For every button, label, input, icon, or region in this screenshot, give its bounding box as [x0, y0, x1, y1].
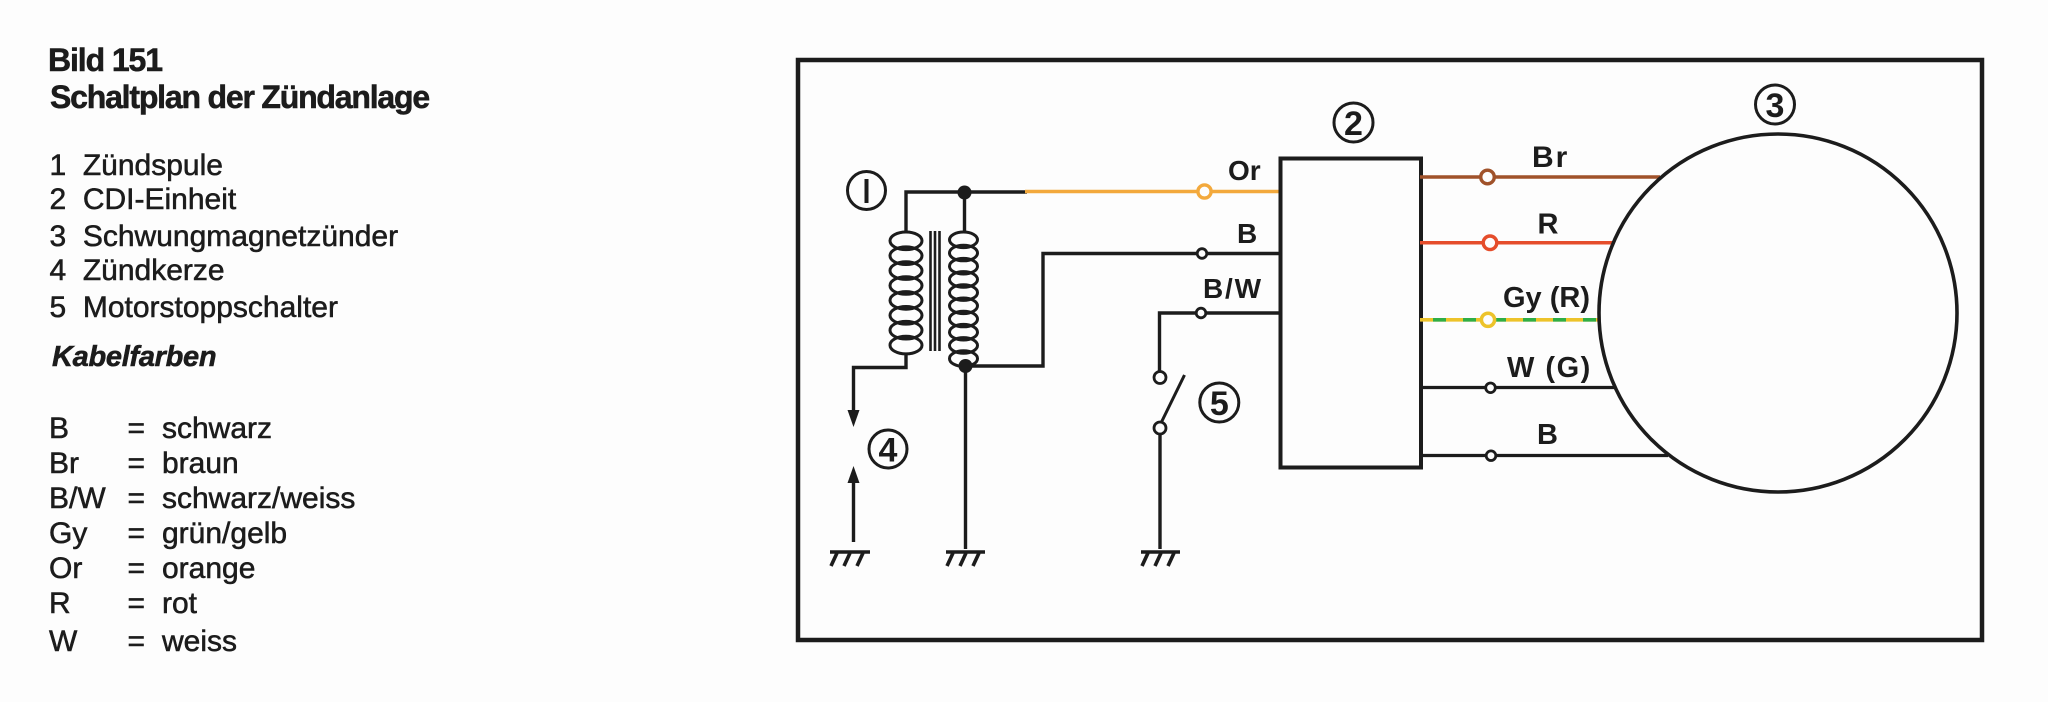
- svg-text:2: 2: [1344, 105, 1363, 143]
- ignition coil T1 core: [931, 231, 940, 351]
- svg-text:Or: Or: [1228, 155, 1261, 186]
- wire primary top hook: [906, 192, 1027, 233]
- flywheel magneto M3: [1599, 134, 1957, 492]
- wire W(G): [1420, 386, 1616, 389]
- svg-text:4: 4: [879, 432, 898, 470]
- wire orange Or: [1025, 190, 1281, 194]
- node junction bottom: [959, 359, 973, 373]
- svg-text:Gy (R): Gy (R): [1503, 282, 1590, 314]
- callout 1 digit: [865, 179, 869, 203]
- callout 3 circle: [1756, 85, 1795, 124]
- connector W(G): [1486, 383, 1496, 393]
- spark gap lower shaft: [852, 481, 855, 542]
- svg-text:3: 3: [1766, 87, 1785, 125]
- color key row Or: [49, 554, 82, 584]
- ignition coil T1 secondary winding: [950, 232, 978, 366]
- color key row Gy: [49, 519, 87, 549]
- connector R: [1483, 236, 1497, 250]
- callout 2 circle: [1334, 103, 1373, 142]
- color key row B: [49, 414, 69, 444]
- svg-text:R: R: [1538, 209, 1559, 241]
- ground switch: [1141, 552, 1180, 566]
- legend item 5: [50, 293, 338, 323]
- spark gap upper arrow: [848, 410, 860, 427]
- legend item 2: [50, 185, 237, 215]
- switch S1 upper contact: [1154, 372, 1166, 384]
- wire R: [1420, 241, 1613, 245]
- ground spark plug: [830, 552, 870, 566]
- connector B right: [1486, 451, 1496, 461]
- color key row R: [49, 589, 71, 619]
- wire Gy green dashes: [1433, 318, 1600, 322]
- svg-text:Br: Br: [1532, 141, 1569, 174]
- wire switch to ground: [1158, 434, 1161, 549]
- wire B/W to CDI: [1160, 313, 1282, 371]
- svg-text:B/W: B/W: [1203, 273, 1263, 304]
- wire Gy yellow base: [1420, 318, 1600, 322]
- connector Or: [1198, 185, 1211, 198]
- title line 1: [48, 44, 162, 76]
- ground coil: [946, 552, 985, 566]
- wire B right: [1420, 454, 1668, 457]
- connector Gy: [1481, 313, 1494, 326]
- color key row Br: [49, 449, 79, 479]
- wire B from coil to CDI: [966, 254, 1282, 367]
- callout 4 circle: [869, 430, 907, 468]
- svg-text:B: B: [1237, 218, 1257, 249]
- connector B/W: [1196, 308, 1206, 318]
- callout 5 circle: [1200, 383, 1239, 422]
- wire secondary top link: [963, 192, 966, 233]
- heading Kabelfarben: [52, 343, 216, 372]
- wire primary bottom to spark gap: [854, 353, 907, 412]
- ignition coil T1 primary winding: [890, 232, 922, 354]
- switch S1 lower contact: [1154, 422, 1166, 434]
- wire Br: [1420, 175, 1660, 178]
- callout 1 circle: [848, 172, 886, 210]
- color key row B/W: [49, 484, 106, 514]
- connector Br: [1481, 170, 1495, 184]
- legend item 4: [50, 256, 225, 286]
- legend item 1: [50, 151, 223, 181]
- legend item 3: [50, 222, 399, 252]
- CDI unit box U2: [1281, 159, 1422, 468]
- schematic frame: [798, 60, 1982, 640]
- node junction top: [958, 186, 972, 200]
- connector B left: [1197, 249, 1207, 259]
- svg-text:B: B: [1537, 419, 1558, 451]
- title line 2: [50, 81, 429, 113]
- svg-text:5: 5: [1210, 385, 1229, 423]
- switch S1 blade: [1162, 375, 1185, 422]
- color key row W: [49, 627, 77, 657]
- spark gap lower arrow: [848, 466, 860, 483]
- svg-text:W (G): W (G): [1507, 352, 1592, 384]
- wire coil to ground: [964, 366, 967, 549]
